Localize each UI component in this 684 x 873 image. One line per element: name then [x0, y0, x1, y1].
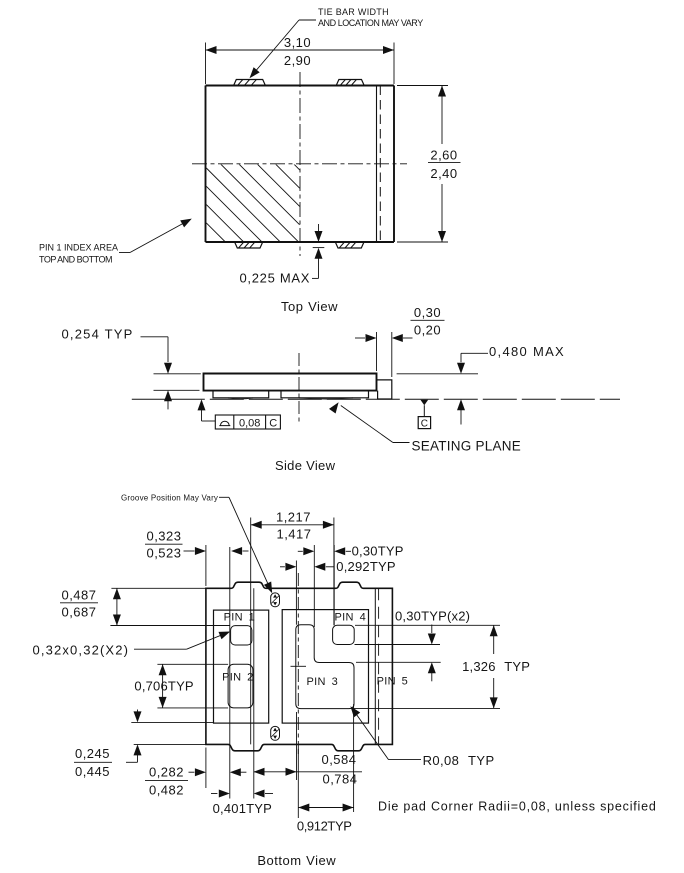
- svg-text:0,292TYP: 0,292TYP: [336, 559, 395, 574]
- inner edge line near right: [376, 86, 378, 243]
- svg-text:PIN 4: PIN 4: [335, 611, 367, 623]
- tie bar top-right (hatched): [336, 80, 364, 86]
- svg-text:0,706TYP: 0,706TYP: [134, 679, 193, 694]
- flatness feature control frame 0,08 C: [198, 399, 281, 429]
- pin label PIN 5: [377, 676, 409, 688]
- svg-text:TIE BAR WIDTH: TIE BAR WIDTH: [318, 7, 389, 17]
- pin 3 die pad L-shaped outline: [296, 625, 354, 709]
- dimension 0,584 / 0,784: [254, 712, 363, 787]
- groove capsule bottom (hatched): [271, 726, 280, 740]
- svg-text:SEATING PLANE: SEATING PLANE: [412, 439, 522, 454]
- svg-text:C: C: [421, 419, 428, 430]
- extension line pin2 right edge long: [253, 588, 255, 798]
- svg-text:2,60: 2,60: [430, 147, 457, 162]
- svg-text:0,584: 0,584: [321, 752, 356, 767]
- package outline with tie-bar bumps (bottom view): [206, 582, 393, 751]
- label SEATING PLANE with leader: [329, 402, 521, 453]
- pin label PIN 4: [335, 611, 367, 623]
- dimension 0,401TYP: [211, 790, 273, 817]
- dimension 0,487 / 0,687: [60, 588, 230, 626]
- datum C symbol: [418, 400, 430, 430]
- horizontal center tick: [291, 665, 307, 667]
- svg-text:0,482: 0,482: [149, 782, 184, 797]
- svg-text:0,401TYP: 0,401TYP: [213, 801, 272, 816]
- dimension 0,225 MAX tie bar protrusion: [240, 224, 325, 285]
- svg-text:0,20: 0,20: [414, 322, 441, 337]
- dimension 3,10 / 2,90 package width: [206, 35, 395, 84]
- svg-text:2,90: 2,90: [284, 53, 311, 68]
- svg-text:0,480 MAX: 0,480 MAX: [489, 344, 565, 359]
- svg-text:0,912TYP: 0,912TYP: [297, 818, 352, 833]
- svg-text:Groove Position May Vary: Groove Position May Vary: [121, 493, 218, 502]
- svg-text:0,32x0,32(X2): 0,32x0,32(X2): [33, 643, 130, 658]
- svg-text:AND LOCATION MAY VARY: AND LOCATION MAY VARY: [318, 18, 423, 28]
- svg-text:0,225 MAX: 0,225 MAX: [240, 270, 311, 285]
- dimension 0,30TYP(x2) right: [355, 608, 471, 681]
- side view right lead/pad: [281, 391, 369, 399]
- label R0,08 TYP with leader: [350, 706, 494, 768]
- dimension 0,30TYP (groove gap top): [298, 544, 404, 627]
- svg-text:1,417: 1,417: [276, 527, 311, 542]
- pin 2 groove rounded rect: [228, 664, 253, 708]
- pin label PIN 3: [307, 676, 339, 688]
- pin 4 index notch 0,32x0,32: [333, 625, 355, 644]
- pin 1 index notch 0,32x0,32: [231, 626, 252, 645]
- seating plane dashed line: [132, 398, 620, 400]
- svg-text:PIN 2: PIN 2: [222, 672, 254, 684]
- dimension 0,912TYP: [297, 704, 354, 833]
- dimension 1,326 TYP: [352, 625, 530, 708]
- tie bar bottom-right (hatched): [335, 242, 364, 248]
- svg-text:1,326 TYP: 1,326 TYP: [462, 659, 530, 674]
- right column inner edge line: [374, 588, 376, 744]
- dimension 0,254 TYP lead height: [62, 327, 201, 410]
- svg-text:0,445: 0,445: [75, 764, 110, 779]
- pin label PIN 1: [224, 611, 256, 623]
- label 0,32x0,32(X2) with leader: [33, 632, 231, 658]
- svg-text:0,784: 0,784: [322, 772, 357, 787]
- dimension 0,706TYP: [134, 664, 228, 708]
- svg-text:0,254 TYP: 0,254 TYP: [62, 327, 134, 342]
- dimension 1,217 / 1,417: [251, 510, 334, 745]
- svg-text:0,30TYP(x2): 0,30TYP(x2): [395, 608, 470, 623]
- svg-text:0,08: 0,08: [239, 417, 260, 429]
- svg-text:0,523: 0,523: [146, 546, 181, 561]
- label PIN 1 INDEX AREA TOP AND BOTTOM with leader: [39, 219, 192, 265]
- svg-text:0,30TYP: 0,30TYP: [352, 544, 404, 559]
- caption Top View: [281, 299, 338, 314]
- caption Side View: [275, 458, 336, 473]
- dimension 2,60 / 2,40 package height: [397, 86, 461, 243]
- svg-text:0,687: 0,687: [61, 605, 96, 620]
- note die pad corner radii: [378, 800, 657, 814]
- svg-text:TOP AND BOTTOM: TOP AND BOTTOM: [39, 255, 112, 265]
- svg-text:Die pad Corner Radii=0,08, unl: Die pad Corner Radii=0,08, unless specif…: [378, 800, 657, 814]
- dimension 0,480 MAX package height (side): [397, 344, 565, 425]
- hidden edge dashed line near right: [379, 86, 381, 243]
- svg-text:0,282: 0,282: [149, 765, 184, 780]
- side view body: [204, 374, 377, 391]
- tie bar bottom-left (hatched): [235, 242, 263, 248]
- label Groove Position May Vary with leader: [121, 493, 272, 593]
- side view vertical centerline: [298, 353, 300, 422]
- svg-text:3,10: 3,10: [284, 35, 311, 50]
- left pad column (PIN 1 / PIN 2 region): [214, 610, 269, 723]
- svg-text:Bottom View: Bottom View: [257, 853, 336, 868]
- svg-text:R0,08 TYP: R0,08 TYP: [423, 753, 495, 768]
- svg-text:0,30: 0,30: [414, 305, 441, 320]
- svg-text:1,217: 1,217: [276, 510, 311, 525]
- svg-text:PIN 5: PIN 5: [377, 676, 409, 688]
- dimension 0,282 / 0,482: [145, 748, 246, 798]
- dimension 0,30 / 0,20 tie bar width (side): [355, 305, 445, 377]
- groove capsule top (hatched): [271, 593, 280, 607]
- package body outline (top view): [206, 86, 395, 243]
- svg-text:C: C: [269, 417, 277, 429]
- svg-text:Side View: Side View: [275, 458, 336, 473]
- center pad column (PIN 3 / PIN 4 region): [282, 610, 368, 724]
- right column dashed hidden line: [378, 588, 380, 744]
- label TIE BAR WIDTH AND LOCATION MAY VARY with leader: [250, 7, 424, 78]
- dimension 0,245 / 0,445: [74, 710, 213, 779]
- vertical centerline (top view): [299, 72, 301, 256]
- horizontal centerline (top view): [192, 163, 407, 165]
- side view right tie-bar step: [377, 380, 392, 399]
- caption Bottom View: [257, 853, 336, 868]
- svg-text:0,245: 0,245: [75, 746, 110, 761]
- svg-text:0,487: 0,487: [61, 588, 96, 603]
- vertical centerline (bottom view): [297, 573, 299, 756]
- extension line through pin1/pin2 left edges: [229, 547, 231, 799]
- svg-text:PIN 3: PIN 3: [307, 676, 339, 688]
- dimension 0,323 / 0,523: [145, 529, 249, 586]
- svg-text:Top View: Top View: [281, 299, 338, 314]
- svg-text:2,40: 2,40: [430, 166, 457, 181]
- svg-text:0,323: 0,323: [146, 529, 181, 544]
- side view left lead/pad: [213, 391, 269, 399]
- svg-text:PIN 1 INDEX AREA: PIN 1 INDEX AREA: [39, 243, 118, 253]
- tie bar top-left (hatched): [234, 80, 266, 86]
- pin label PIN 2: [222, 672, 254, 684]
- dimension 0,292TYP (finger width): [280, 559, 396, 625]
